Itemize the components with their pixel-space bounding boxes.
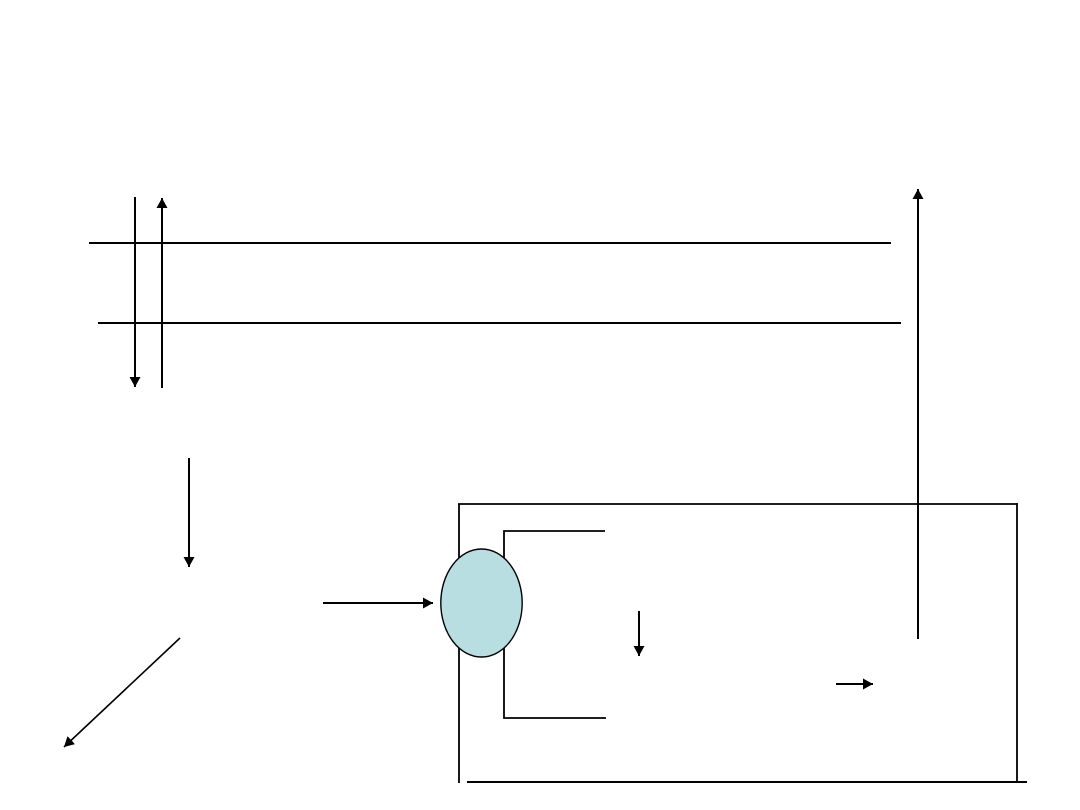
arrow: small downward inside tank [638, 611, 640, 656]
ellipse pump [441, 549, 522, 657]
wire: lower horizontal plate line [98, 322, 901, 324]
arrow: downward flow crossing plates [134, 197, 136, 387]
wire: tank left side [458, 504, 460, 783]
wire: tank right side [1016, 503, 1018, 783]
arrow: long upward return line on right [917, 189, 919, 639]
arrow: diagonal down-left [64, 638, 180, 747]
wire: upper horizontal plate line [89, 242, 891, 244]
arrow: small rightward inside tank [836, 683, 873, 685]
arrow: horizontal into ellipse [323, 602, 433, 604]
wire: tank top side [458, 503, 1017, 505]
arrow: middle downward [188, 458, 190, 567]
bracket electrode inside tank [504, 531, 606, 718]
arrow: upward flow crossing plates [161, 198, 163, 388]
wire: tank bottom side [467, 781, 1027, 783]
